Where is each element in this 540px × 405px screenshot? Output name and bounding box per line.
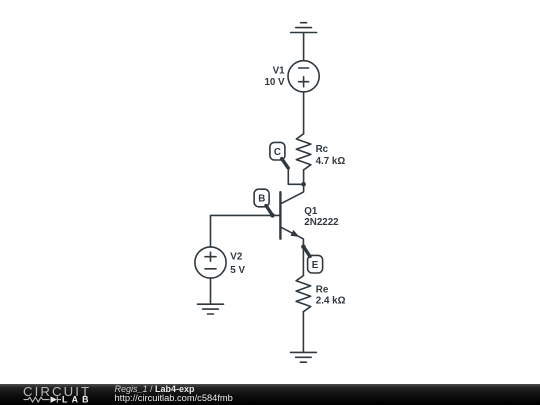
svg-text:V1: V1 [273, 66, 286, 77]
svg-text:10 V: 10 V [264, 77, 285, 88]
svg-text:LAB: LAB [62, 395, 93, 405]
svg-text:5 V: 5 V [230, 265, 245, 276]
wire: base wire from V2 to Q1 base [211, 215, 281, 247]
resistor Re [296, 276, 311, 312]
junction dot (collector node) [301, 182, 306, 187]
voltage source V2 [195, 247, 226, 278]
wire: emitter down to resistor Re [302, 247, 304, 276]
wire: Re to bottom ground [302, 312, 304, 353]
ground (bottom, below Re) [290, 352, 316, 362]
junction dot (base node) [270, 213, 275, 218]
resistor Rc [296, 134, 311, 170]
voltage source V1 [288, 61, 319, 92]
svg-text:2.4 kΩ: 2.4 kΩ [316, 296, 346, 307]
svg-text:Rc: Rc [316, 144, 329, 155]
wire: V2 to its ground [210, 278, 212, 304]
node B flag [254, 189, 272, 214]
footer title line [115, 384, 195, 394]
svg-text:2N2222: 2N2222 [304, 217, 339, 228]
footer bar [0, 384, 540, 405]
svg-text:B: B [258, 194, 265, 205]
ground (top, at V1) [291, 23, 317, 33]
wire: top ground to V1 [303, 33, 305, 61]
junction dot (emitter node) [301, 244, 306, 249]
svg-text:Q1: Q1 [304, 206, 318, 217]
svg-text:4.7 kΩ: 4.7 kΩ [316, 156, 346, 167]
node E flag [304, 248, 322, 273]
ground (below V2) [198, 304, 224, 314]
svg-text:C: C [274, 147, 281, 158]
wire: node C flag to collector junction [288, 168, 303, 184]
CircuitLab logo [0, 384, 100, 405]
logo resistor-diode glyph [24, 396, 62, 402]
transistor Q1 (NPN) [280, 184, 303, 246]
svg-text:V2: V2 [230, 251, 243, 262]
wire: V1 to resistor Rc [303, 92, 305, 134]
footer url line [115, 394, 233, 404]
node C flag [270, 142, 288, 168]
wire: Rc to collector node [303, 170, 305, 184]
svg-text:E: E [312, 260, 319, 271]
svg-text:Re: Re [316, 284, 329, 295]
